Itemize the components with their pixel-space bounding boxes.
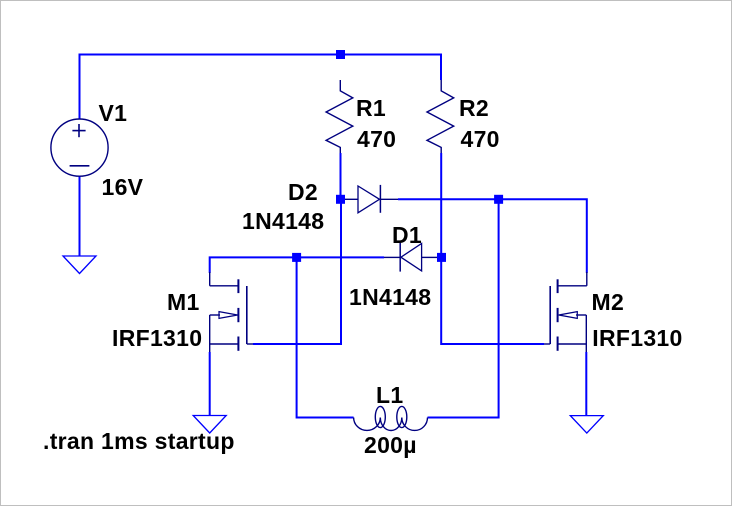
transistor M1 (210, 272, 253, 352)
spice directive .tran (43, 430, 235, 453)
label R1 value 470 (357, 128, 396, 151)
wire M2 gate to R2/D1 node (441, 257, 544, 344)
label D1 (392, 224, 422, 247)
ground under M2 (570, 416, 603, 434)
label M2 (592, 291, 625, 314)
label L1 value 200u (364, 434, 417, 457)
label R1 (356, 97, 386, 120)
label M1 value IRF1310 (112, 327, 202, 350)
diode D1 (384, 243, 437, 272)
resistor R1 (326, 80, 353, 153)
node junction D1 / R2 / M2 gate (437, 253, 446, 262)
wire M2 source to ground (585, 352, 587, 416)
wire M1 source to ground (209, 352, 211, 416)
node junction D2 row / L1 right (494, 195, 503, 204)
resistor R2 (427, 80, 454, 153)
wire M1 drain row (210, 257, 384, 273)
label V1 (99, 102, 128, 125)
label 16V (102, 176, 144, 199)
node junction M1 drain row / L1 left (292, 253, 301, 262)
wire V1 bottom to ground (79, 176, 81, 256)
wire R1 bottom to node (340, 153, 342, 199)
transistor M2 (544, 272, 587, 352)
voltage source V1 (51, 119, 108, 176)
label R2 (459, 97, 489, 120)
wire top rail V+ (80, 55, 442, 120)
wire D2 cathode to M2 drain (398, 199, 587, 273)
label D2 (288, 181, 318, 204)
label D2 value 1N4148 (242, 210, 324, 233)
inductor L1 (354, 406, 428, 430)
wire L1 left leg (297, 257, 354, 417)
wire R2 bottom to D1 node (440, 153, 442, 257)
ground under V1 (63, 256, 96, 274)
ground under M1 (193, 416, 226, 434)
label L1 (376, 384, 403, 407)
label M2 value IRF1310 (592, 327, 682, 350)
wire M1 gate to R1/D2 node (253, 199, 341, 344)
node junction R1 / D2 / gate wire (336, 195, 345, 204)
diode D2 (345, 185, 398, 213)
label M1 (167, 291, 200, 314)
node junction top rail / R1 (336, 50, 345, 59)
label D1 value 1N4148 (349, 286, 431, 309)
label R2 value 470 (461, 128, 500, 151)
wire L1 right leg (428, 199, 499, 417)
